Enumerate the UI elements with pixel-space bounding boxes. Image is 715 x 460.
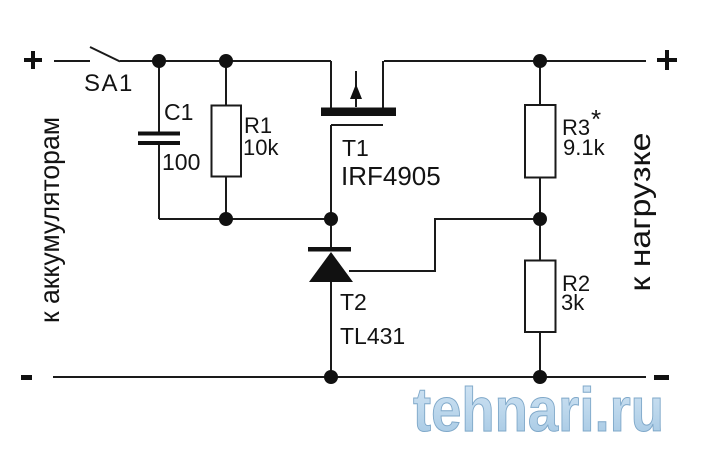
svg-text:10k: 10k [243, 135, 279, 160]
svg-text:TL431: TL431 [340, 323, 405, 349]
svg-text:C1: C1 [164, 99, 193, 125]
svg-text:SA1: SA1 [84, 70, 134, 97]
svg-text:tehnari.ru: tehnari.ru [413, 376, 664, 445]
svg-text:T1: T1 [342, 135, 369, 161]
svg-text:к нагрузке: к нагрузке [624, 133, 657, 292]
svg-text:к аккумуляторам: к аккумуляторам [34, 117, 65, 323]
svg-text:T2: T2 [340, 289, 367, 315]
svg-text:3k: 3k [561, 290, 585, 315]
svg-text:IRF4905: IRF4905 [341, 161, 441, 191]
svg-text:100: 100 [162, 149, 200, 175]
svg-text:9.1k: 9.1k [563, 135, 606, 160]
svg-text:*: * [591, 104, 601, 134]
